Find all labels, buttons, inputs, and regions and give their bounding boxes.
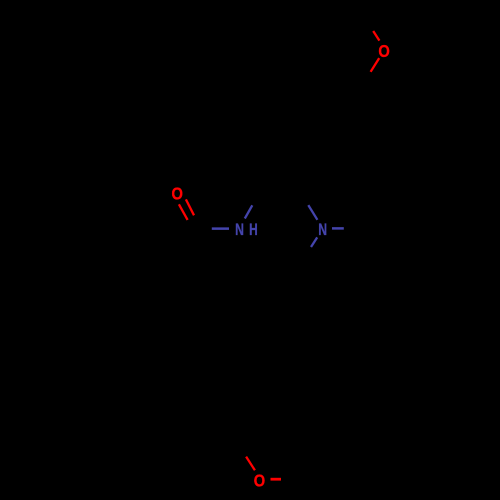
bond C=O line 1 (amide carbonyl, O half, main line) bbox=[186, 199, 194, 215]
bond N2-C up-left (tertiary amine, N half) bbox=[308, 205, 317, 220]
svg-text:O: O bbox=[254, 471, 265, 491]
bond C(O)-N (amide C-N, N half) bbox=[212, 227, 229, 230]
bond O3-CH3 (bottom methoxy, O half) bbox=[271, 478, 282, 481]
bond O1-CH3 (top methoxy, O half) bbox=[373, 31, 379, 41]
bond O1-Cring (top methoxy, O half) bbox=[371, 58, 380, 72]
svg-text:N: N bbox=[318, 220, 327, 239]
bond O3-Cring (bottom methoxy, O half) bbox=[246, 457, 255, 471]
svg-text:H: H bbox=[249, 220, 258, 239]
svg-text:O: O bbox=[378, 41, 389, 61]
svg-text:N: N bbox=[235, 220, 244, 239]
bond N2-C right (tertiary amine, N half) bbox=[332, 227, 344, 230]
svg-text:O: O bbox=[172, 184, 183, 204]
bond N2-C down-left (tertiary amine, N half) bbox=[311, 237, 317, 247]
bond N-CH (amide N to chain CH, N half) bbox=[245, 205, 253, 218]
bond C=O line 2 (amide carbonyl, O half, inner line) bbox=[179, 204, 188, 220]
